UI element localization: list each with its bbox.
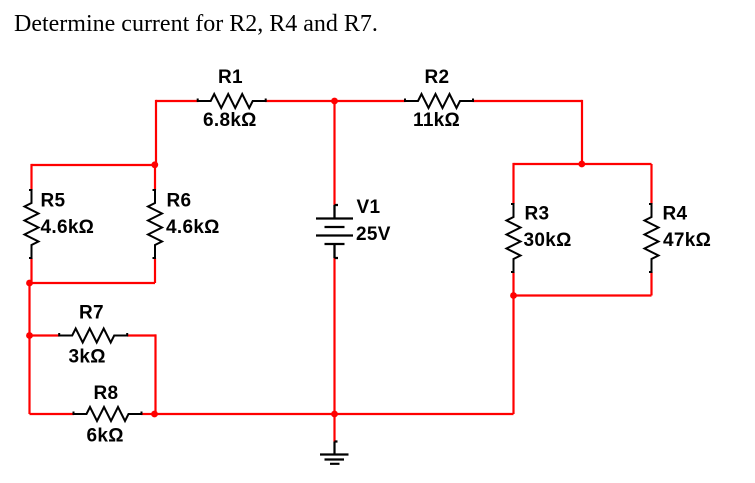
svg-text:R6: R6 <box>167 191 192 212</box>
wire left vertical from top wire down to left loop <box>155 100 157 165</box>
resistor R4 <box>645 204 659 272</box>
wire R2 right to top-right corner <box>473 100 583 102</box>
wire top-left segment (node to R1 left) <box>156 100 199 102</box>
resistor R5 <box>25 190 39 258</box>
ground <box>320 442 349 464</box>
resistor R3 <box>507 204 521 272</box>
wire R7 left lead connection <box>30 334 60 336</box>
svg-text:6kΩ: 6kΩ <box>87 426 124 447</box>
wire V1 bottom vertical to bottom wire <box>333 258 335 414</box>
wire right loop bottom horizontal <box>514 294 652 296</box>
wire R6 top lead connection <box>154 165 156 190</box>
svg-text:R1: R1 <box>218 67 243 88</box>
battery V1 <box>316 205 353 258</box>
wire R8 right to node <box>141 413 156 415</box>
svg-text:4.6kΩ: 4.6kΩ <box>41 217 95 238</box>
svg-text:R2: R2 <box>425 67 450 88</box>
wire left outer vertical <box>28 283 30 414</box>
wire R5 top lead connection <box>30 164 32 190</box>
resistor R6 <box>148 190 162 258</box>
wire V1 top vertical from top wire <box>333 101 335 205</box>
node left loop top junction <box>151 161 158 168</box>
node bottom junction at ground <box>331 411 338 418</box>
wire R4 bottom lead connection <box>650 272 652 296</box>
resistor R1 <box>198 94 266 108</box>
node right loop bottom-left junction <box>510 292 517 299</box>
svg-text:R3: R3 <box>525 204 550 225</box>
svg-text:R5: R5 <box>41 191 66 212</box>
resistor R2 <box>405 94 473 108</box>
svg-text:6.8kΩ: 6.8kΩ <box>203 110 257 131</box>
svg-text:3kΩ: 3kΩ <box>69 347 106 368</box>
wire bottom main horizontal <box>154 413 514 415</box>
svg-text:V1: V1 <box>357 197 381 218</box>
svg-text:47kΩ: 47kΩ <box>663 230 711 251</box>
wire R3 top lead connection <box>512 163 514 204</box>
node top junction at V1 branch <box>331 98 338 105</box>
wire R7 right vertical down to bottom wire <box>154 334 156 414</box>
svg-text:11kΩ: 11kΩ <box>413 110 460 131</box>
wire R6 bottom lead connection <box>154 258 156 283</box>
wire R1 right to R2 left (through top node) <box>265 100 406 102</box>
svg-text:R8: R8 <box>94 383 119 404</box>
wire R5 bottom lead connection <box>30 258 32 283</box>
wire right loop top horizontal <box>514 163 652 165</box>
svg-text:R4: R4 <box>663 204 688 225</box>
wire left loop top horizontal <box>32 164 156 166</box>
node R8 right junction <box>151 411 158 418</box>
node R7 left junction <box>26 332 33 339</box>
wire ground stub <box>333 414 335 442</box>
wire R4 top lead connection <box>650 164 652 204</box>
wire right vertical from top wire <box>581 100 583 164</box>
node right loop top junction <box>578 161 585 168</box>
svg-text:R7: R7 <box>79 303 104 324</box>
wire left loop bottom horizontal <box>30 282 156 284</box>
svg-text:Determine current for R2, R4 a: Determine current for R2, R4 and R7. <box>14 11 378 37</box>
node left loop bottom-left junction <box>26 280 33 287</box>
svg-text:30kΩ: 30kΩ <box>524 230 572 251</box>
wire right lower vertical to bottom wire <box>512 296 514 415</box>
wire R7 right lead to corner <box>127 334 156 336</box>
svg-text:4.6kΩ: 4.6kΩ <box>166 217 220 238</box>
wire bottom-left to R8 <box>30 413 75 415</box>
resistor R8 <box>74 407 142 421</box>
resistor R7 <box>59 329 127 343</box>
wire R3 bottom lead connection <box>512 272 514 296</box>
svg-text:25V: 25V <box>356 224 391 245</box>
